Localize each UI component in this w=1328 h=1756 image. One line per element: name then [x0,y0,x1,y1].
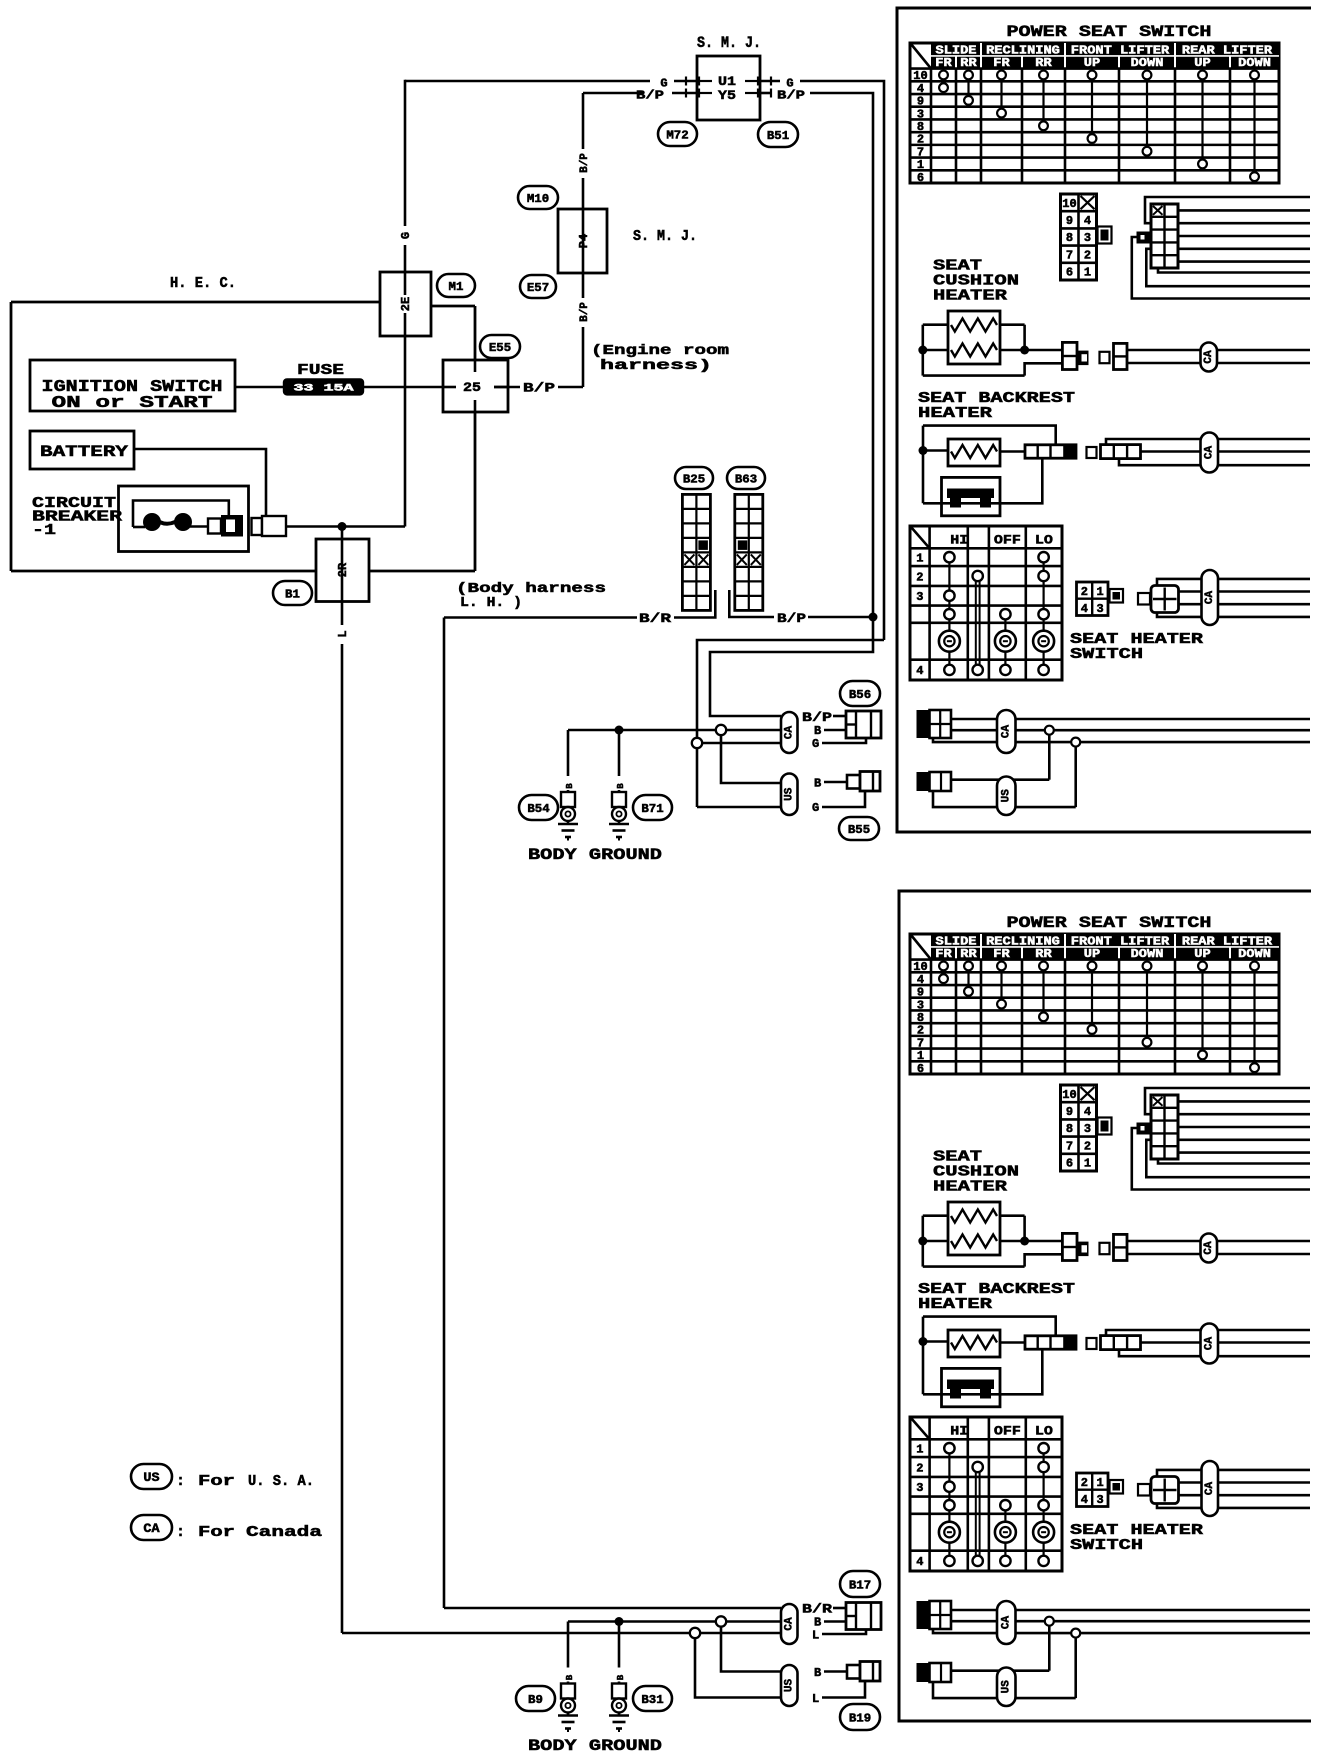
svg-text:B19: B19 [849,1711,871,1725]
fuse symbol [284,379,363,394]
wire battery to breaker node [134,449,266,516]
US marker (upper feed) [781,774,798,816]
body ground B71 ground symbol [618,821,621,824]
svg-text:B54: B54 [527,802,549,816]
svg-text:B/P: B/P [777,611,806,626]
wire B/R to CA (lower) [444,1607,781,1610]
connector ref B17 [840,1571,880,1597]
legend US [131,1464,172,1489]
connector ref E55 [480,335,520,358]
breaker output connector [252,518,263,535]
svg-text:B56: B56 [849,688,871,702]
connector ref B56 [840,681,880,706]
connector ref B1 [273,581,312,605]
connector B63 [735,494,763,610]
svg-text:B/P: B/P [523,381,555,396]
body ground B9 wire stem [567,1622,570,1668]
svg-text:2R: 2R [336,562,350,577]
svg-text:M10: M10 [527,192,549,206]
connector B56 [846,711,881,738]
junction node [338,522,347,531]
body ground B31 wire stem [618,1622,621,1668]
ignition switch [30,360,235,411]
svg-text:L. H. ): L. H. ) [460,595,522,611]
body ground B54 wire stem [567,730,570,776]
svg-text:POWER SEAT SWITCH: POWER SEAT SWITCH [1007,914,1212,932]
connector 2E [380,272,431,336]
svg-text:E57: E57 [527,281,549,295]
wire B/P vertical (engine room harness) [582,93,585,149]
body ground B9 screw terminal [561,1699,575,1713]
svg-text:BATTERY: BATTERY [40,443,129,461]
body ground B54 screw terminal [561,807,575,821]
S.M.J. pin ticks [685,77,687,86]
power seat switch unit (lower, RH) [910,934,1310,1706]
connector 2R [341,527,344,540]
svg-text:S. M. J.: S. M. J. [697,34,761,52]
svg-text:P4: P4 [577,234,591,248]
wire B/P to S.M.J. [583,92,643,95]
svg-text:33 15A: 33 15A [294,384,354,395]
svg-text:E55: E55 [489,341,511,355]
svg-text:U1: U1 [718,74,736,89]
connector B19 [847,1665,860,1679]
wire B branch to US (upper) [721,735,781,783]
wire L to CA/US (lower) [342,1632,690,1635]
svg-text:B/P: B/P [579,153,591,173]
connector 25 [443,360,508,412]
svg-text:B/P: B/P [777,89,805,103]
power seat switch unit (upper, LH) [910,43,1310,815]
svg-text:US: US [783,787,795,801]
H.E.C. box [11,301,380,304]
svg-text:B17: B17 [849,1578,871,1592]
svg-text::: : [176,1473,185,1490]
svg-text:2E: 2E [399,297,413,311]
svg-text:harness): harness) [600,358,712,374]
wire B/P (right riser) [760,92,772,95]
svg-text:B1: B1 [285,587,300,601]
svg-text:B: B [814,1666,821,1680]
body ground B54 ground symbol [567,821,570,824]
svg-text:POWER SEAT SWITCH: POWER SEAT SWITCH [1007,23,1212,41]
svg-text:G: G [812,801,819,815]
svg-text:B: B [616,1674,626,1680]
connector ref B9 [516,1686,555,1711]
svg-text:CA: CA [783,726,795,740]
svg-text:B/P: B/P [579,302,591,322]
CA marker (lower feed) [781,1604,798,1644]
wire B/P to CA (upper) [710,617,873,716]
svg-text:(Engine room: (Engine room [591,343,729,359]
svg-text:B55: B55 [848,823,870,837]
wire G (2E to S.M.J.) [404,80,407,226]
svg-text:US: US [783,1679,795,1693]
wire B with grounds (upper) [568,729,716,732]
power seat switch box (lower) [899,891,1311,1721]
body ground B9 connector [567,1682,570,1684]
connector ref M72 [658,122,697,146]
legend CA [131,1515,172,1540]
wire breaker to node [286,525,405,528]
svg-text:For: For [198,1473,235,1490]
svg-text:FUSE: FUSE [297,362,344,379]
connector ref B55 [839,817,879,840]
svg-text:BODY GROUND: BODY GROUND [528,846,662,864]
svg-text:BODY GROUND: BODY GROUND [528,1737,662,1755]
svg-text:B: B [814,1616,821,1630]
svg-text:ON or START: ON or START [52,394,213,413]
svg-text:B31: B31 [641,1693,663,1707]
wire L vertical [341,602,344,626]
body ground B71 wire stem [618,730,621,776]
svg-text:For: For [198,1524,235,1541]
connector ref B54 [519,795,558,820]
svg-text:B51: B51 [767,129,789,143]
svg-text:M1: M1 [449,280,464,294]
wire B/P (B63 to riser) [729,590,774,617]
svg-text:CA: CA [143,1521,159,1536]
svg-text:Y5: Y5 [718,88,736,103]
svg-text:L: L [812,1629,819,1643]
svg-text:B63: B63 [735,472,757,486]
wire B/P from 2S [494,386,520,389]
svg-text:G: G [399,232,413,239]
connector ref E57 [520,275,556,298]
body ground B71 screw terminal [612,807,626,821]
svg-text:B71: B71 [641,802,663,816]
connector B55 [847,775,860,789]
svg-text:B/R: B/R [802,1602,832,1617]
svg-text:L: L [812,1692,819,1706]
svg-text:B25: B25 [683,472,705,486]
svg-text:B9: B9 [528,1693,543,1707]
body ground B31 ground symbol [618,1713,621,1716]
body ground B71 connector [618,790,621,792]
body ground B54 connector [567,790,570,792]
connector ref B25 [675,467,713,489]
svg-text:B/P: B/P [802,710,832,725]
svg-text:Canada: Canada [246,1524,322,1541]
body ground B31 screw terminal [612,1699,626,1713]
circuit breaker -1 [119,486,249,552]
svg-text:B/R: B/R [639,611,671,626]
svg-text:B: B [565,783,575,789]
wire B branch to US (lower) [721,1627,781,1672]
svg-text:B: B [616,783,626,789]
svg-text:H. E. C.: H. E. C. [170,275,236,292]
wire B with grounds (lower) [568,1620,716,1623]
junction B/P [869,613,878,622]
wire B/R vertical [443,618,446,1609]
svg-text:L: L [336,630,350,637]
battery [30,431,134,469]
svg-text:M72: M72 [666,128,688,142]
connector ref B71 [633,795,672,820]
body ground B31 connector [618,1682,621,1684]
svg-text:U. S. A.: U. S. A. [248,1473,314,1490]
svg-text:-1: -1 [32,522,56,539]
svg-text:US: US [143,1470,159,1485]
wire G (right riser) [760,80,780,83]
svg-text:G: G [812,737,819,751]
svg-text:B/P: B/P [636,89,664,103]
svg-text:25: 25 [463,380,481,395]
svg-text:CA: CA [783,1617,795,1631]
connector ref M10 [518,186,558,209]
CA marker (upper feed) [781,712,798,753]
wire G to CA/US (upper) [697,640,884,738]
S.M.J. pin stubs [699,80,712,82]
connector ref B31 [633,1686,672,1711]
US marker (lower feed) [781,1665,798,1706]
power seat switch box (upper) [897,8,1311,832]
svg-text::: : [176,1524,185,1541]
body ground B9 ground symbol [567,1713,570,1716]
connector ref B19 [840,1704,880,1730]
S.M.J. junction box U1/Y5 [697,56,760,120]
svg-text:S. M. J.: S. M. J. [633,228,697,245]
wire fuse to 2S [363,386,456,389]
connector B25 [682,494,710,610]
wire 2E to fuse node [404,337,407,527]
connector ref M1 [437,274,475,297]
svg-text:B: B [814,777,821,791]
wire ignition to fuse [235,386,284,389]
connector B17 [846,1603,881,1630]
svg-text:B: B [565,1674,575,1680]
connector ref B63 [727,467,765,489]
connector ref B51 [758,122,798,147]
svg-text:B: B [814,724,821,738]
wire B/R [444,616,637,619]
connector P4 (S.M.J.) [558,209,607,273]
